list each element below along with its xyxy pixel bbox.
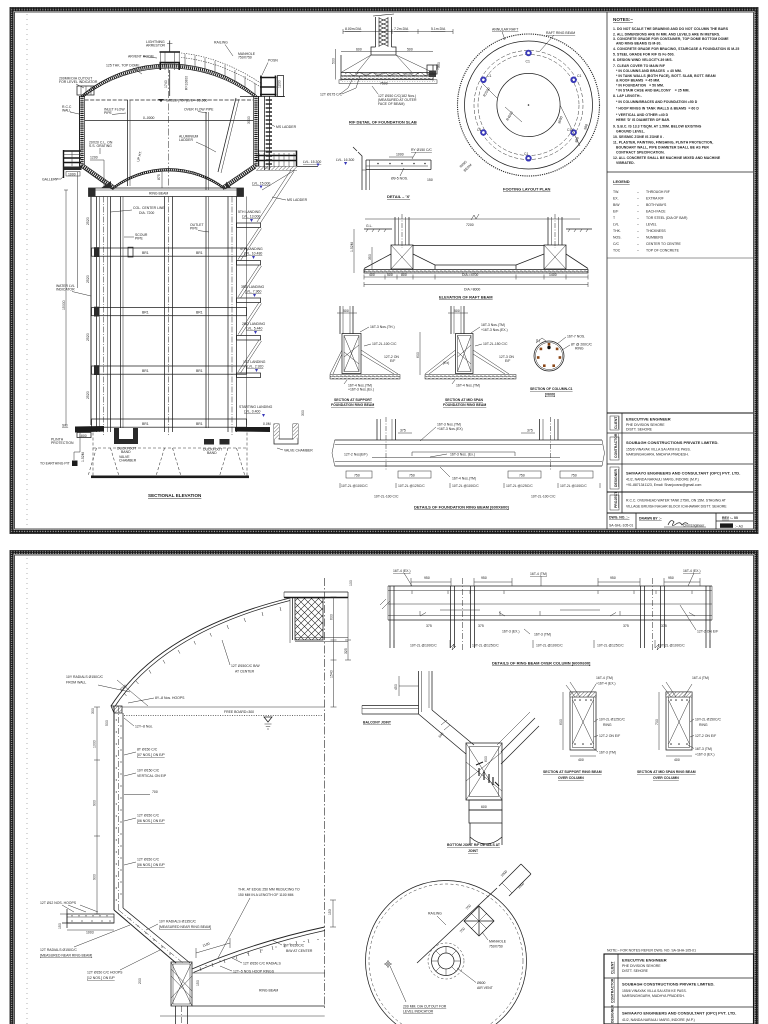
bottom dome inner arc: [113, 171, 224, 189]
svg-text:NOS.: NOS.: [613, 236, 621, 240]
bottom bar hooks: [380, 599, 695, 616]
svg-text:BR1: BR1: [142, 422, 149, 426]
svg-text:POSN: POSN: [268, 59, 278, 63]
svg-text:BAND: BAND: [121, 450, 131, 454]
svg-text:750X750: 750X750: [238, 56, 252, 60]
svg-text:150: 150: [58, 923, 62, 929]
svg-text:LEVEL INDICATOR: LEVEL INDICATOR: [403, 1010, 434, 1014]
svg-text:BR1: BR1: [196, 369, 203, 373]
top of wall line: [122, 706, 325, 708]
sheet2 decorative border band: [12, 553, 756, 1024]
svg-text:Ø9-5 NOS.: Ø9-5 NOS.: [391, 177, 408, 181]
svg-text:RING: RING: [575, 347, 584, 351]
svg-text:950: 950: [481, 576, 487, 580]
railing diagonal: [417, 888, 497, 963]
svg-text:950: 950: [668, 576, 674, 580]
svg-text:700: 700: [655, 719, 659, 725]
svg-text:10Y Ø150 C/C: 10Y Ø150 C/C: [137, 769, 160, 773]
svg-text:T: T: [613, 216, 616, 220]
svg-text:155/6 VINAYAK VILLA SAI ATM KE: 155/6 VINAYAK VILLA SAI ATM KE PASS.: [622, 989, 687, 993]
svg-text:1400: 1400: [549, 273, 557, 277]
svg-text:BALCONY JOINT: BALCONY JOINT: [363, 721, 392, 725]
svg-text:CLIENT: CLIENT: [611, 961, 615, 974]
svg-text:LVL. 2.920: LVL. 2.920: [247, 365, 263, 369]
bottom dims: [364, 276, 588, 278]
column cylinder: [469, 823, 471, 845]
svg-text:15000: 15000: [62, 300, 66, 310]
svg-text:7500: 7500: [380, 82, 388, 86]
legend bottom divider: [607, 257, 754, 259]
svg-text:TOP OF CONCRETE: TOP OF CONCRETE: [646, 249, 680, 253]
svg-text:CLIENT: CLIENT: [614, 416, 618, 429]
svg-text:AND RING BEAMS IS M-30.: AND RING BEAMS IS M-30.: [616, 42, 661, 46]
svg-text:750: 750: [459, 927, 466, 934]
svg-text:BOUNDARY WALL, PIPE DIAMETER S: BOUNDARY WALL, PIPE DIAMETER SHALL BE AS…: [616, 146, 709, 150]
svg-text:400: 400: [369, 273, 375, 277]
svg-text:750: 750: [571, 474, 577, 478]
svg-text:SECTION AT SUPPORT RING BEAM: SECTION AT SUPPORT RING BEAM: [543, 770, 602, 774]
svg-text:125 THK. TOP DOME: 125 THK. TOP DOME: [106, 64, 140, 68]
svg-text:12T RADIALS Ø150C/C: 12T RADIALS Ø150C/C: [40, 948, 77, 952]
svg-text:SECTION AT MID SPAN RING BEAM: SECTION AT MID SPAN RING BEAM: [637, 770, 696, 774]
balcony band left: [362, 706, 419, 715]
svg-text:16T-3 (EX.): 16T-3 (EX.): [502, 630, 520, 634]
svg-text:–: –: [637, 203, 639, 207]
sheet2 outer border line: [10, 551, 758, 1024]
svg-text:DESIGNER: DESIGNER: [614, 469, 618, 487]
svg-text:PROJECT: PROJECT: [614, 491, 618, 508]
svg-text:1200: 1200: [90, 156, 98, 160]
svg-text:–: –: [637, 229, 639, 233]
svg-text:CONTRACTOR: CONTRACTOR: [611, 978, 615, 1003]
svg-text:LADDER: LADDER: [179, 138, 193, 142]
svg-text:3. CONCRETE GRADE FOR CONTAINE: 3. CONCRETE GRADE FOR CONTAINER, TOP DOM…: [613, 37, 729, 41]
svg-text:–: –: [637, 197, 639, 201]
svg-text:300: 300: [436, 64, 440, 70]
svg-text:RING: RING: [603, 723, 612, 727]
svg-text:* IN COLUMNS AND BRACES = 40: * IN COLUMNS AND BRACES = 40 MM.: [616, 69, 682, 73]
svg-text:16T-4 Nos.(TM): 16T-4 Nos.(TM): [452, 477, 476, 481]
svg-text:12T Ø150 C/C: 12T Ø150 C/C: [137, 814, 160, 818]
svg-text:8Y–8 Nos. HOOPS: 8Y–8 Nos. HOOPS: [155, 696, 185, 700]
svg-text:10. SEISMIC ZONE IS ZONE II .: 10. SEISMIC ZONE IS ZONE II .: [613, 135, 664, 139]
svg-text:10T-2L @100C/C: 10T-2L @100C/C: [658, 644, 685, 648]
ms ladder rungs below platform: [266, 100, 272, 168]
column base: [371, 47, 396, 55]
svg-text:16T-3 (TM): 16T-3 (TM): [599, 751, 616, 755]
hooks of extra bars: [412, 591, 692, 616]
svg-text:10T-2L @100C/C: 10T-2L @100C/C: [410, 644, 437, 648]
svg-text:1000: 1000: [396, 153, 404, 157]
svg-text:750: 750: [354, 474, 360, 478]
svg-text:10T-2L @125C/C: 10T-2L @125C/C: [398, 484, 425, 488]
dims 600/500: [341, 51, 433, 53]
svg-text:1000: 1000: [68, 172, 76, 176]
lightning arrestor: [169, 41, 171, 53]
svg-text:S.L.: S.L.: [62, 424, 68, 428]
storey dim line: [90, 196, 92, 425]
sheet2 fold dotted line: [26, 558, 28, 1024]
wall kink slant band: [114, 910, 176, 963]
svg-text:NOTE:– FOR NOTES REFER DWG. NO: NOTE:– FOR NOTES REFER DWG. NO. SA-SHA-1…: [607, 949, 696, 953]
svg-text:RAILING: RAILING: [428, 912, 442, 916]
svg-text:EX.: EX.: [613, 197, 619, 201]
svg-text:[12 NOS.] ON E/P: [12 NOS.] ON E/P: [87, 976, 115, 980]
corner wall: [358, 152, 362, 190]
title block sheet2: [604, 954, 754, 1024]
svg-text:NARSINGHGARH, MADHYA PRADESH.: NARSINGHGARH, MADHYA PRADESH.: [626, 453, 689, 457]
svg-text:950: 950: [610, 576, 616, 580]
svg-text:* IN COLUMN/BRACES AND FOUNDAT: * IN COLUMN/BRACES AND FOUNDATION =50 D: [616, 100, 698, 104]
svg-text:12Y–8 Nos.: 12Y–8 Nos.: [135, 725, 153, 729]
svg-text:TO EARTHING PIT: TO EARTHING PIT: [40, 462, 71, 466]
outlet pipe: [205, 197, 207, 429]
ring beam elevation lines right of box: [192, 972, 325, 974]
diagonal band down to joint: [419, 710, 475, 754]
svg-text:FOR LEVEL INDICATOR: FOR LEVEL INDICATOR: [59, 80, 98, 84]
bottom dome hatch band: [112, 170, 225, 189]
bottom labels: [426, 624, 718, 637]
svg-text:10T-2L @100C/C: 10T-2L @100C/C: [452, 484, 479, 488]
svg-text:* HOOP RINGS IN TANK WALLS & B: * HOOP RINGS IN TANK WALLS & BEAMS = 60 …: [616, 106, 699, 110]
svg-text:2. ALL DIMENSIONS ARE IN MM. A: 2. ALL DIMENSIONS ARE IN MM. AND LEVELS …: [613, 32, 720, 36]
svg-text:GALLERY: GALLERY: [42, 178, 59, 182]
svg-text:155/6 VINAYAK VILLA SAI ATM KE: 155/6 VINAYAK VILLA SAI ATM KE PASS.: [626, 448, 691, 452]
wall top haunch: [111, 706, 122, 713]
left small dims: [353, 229, 355, 273]
svg-text:THK. AT EDGE 250 MM REDUCING T: THK. AT EDGE 250 MM REDUCING TO: [238, 888, 300, 892]
svg-text:400: 400: [578, 758, 584, 762]
top dome inner arc: [85, 68, 253, 96]
svg-text:BOTH WAYS: BOTH WAYS: [646, 203, 667, 207]
svg-text:JOINT: JOINT: [468, 849, 479, 853]
svg-text:R2500: R2500: [482, 87, 491, 98]
inner rebar lines: [412, 452, 515, 456]
svg-text:* VERTICAL AND OTHER =40 D: * VERTICAL AND OTHER =40 D: [616, 113, 669, 117]
svg-text:1003: 1003: [86, 931, 94, 935]
svg-text:10T-2L-100 C/C: 10T-2L-100 C/C: [372, 342, 397, 346]
svg-text:PHE DIVISION SEHORE: PHE DIVISION SEHORE: [626, 423, 665, 427]
right dim stack: [333, 597, 335, 707]
svg-text:500: 500: [407, 48, 413, 52]
svg-text:200 MM. DIA CUTOUT FOR: 200 MM. DIA CUTOUT FOR: [403, 1005, 447, 1009]
svg-text:(Ex): (Ex): [443, 361, 449, 365]
svg-text:16T-7 NOS.: 16T-7 NOS.: [567, 335, 585, 339]
svg-text:EXECUTIVE ENGINEER: EXECUTIVE ENGINEER: [622, 958, 667, 963]
svg-text:10T-2L @100C/C: 10T-2L @100C/C: [560, 484, 587, 488]
svg-text:RY Ø150 C/C: RY Ø150 C/C: [411, 148, 432, 152]
landings right: [237, 223, 261, 378]
svg-text:TOR STEEL (DIA OF BAR): TOR STEEL (DIA OF BAR): [646, 216, 687, 220]
svg-text:16T-4 (EX.): 16T-4 (EX.): [683, 569, 701, 573]
svg-text:RING BEAM: RING BEAM: [259, 989, 278, 993]
svg-text:41/2, NANDA NARAULI MARG, INDO: 41/2, NANDA NARAULI MARG, INDORE (M.P.): [626, 478, 699, 482]
svg-text:* IN STAIR CASE AND BALCONY: * IN STAIR CASE AND BALCONY = 25 MM.: [616, 89, 690, 93]
svg-text:BR1: BR1: [196, 310, 203, 314]
tank mid line: [85, 120, 254, 122]
column mid: [165, 197, 173, 433]
svg-text:3000: 3000: [247, 116, 251, 124]
svg-text:ARVENT ROOM: ARVENT ROOM: [128, 55, 154, 59]
svg-text:CHAMBER: CHAMBER: [119, 459, 137, 463]
notes list: [613, 27, 739, 165]
pedestals: [391, 245, 413, 269]
svg-text:500: 500: [343, 309, 349, 313]
svg-text:41/2, NANDA NARAULI MARG, INDO: 41/2, NANDA NARAULI MARG, INDORE (M.P.): [622, 1018, 695, 1022]
svg-text:C1: C1: [487, 74, 491, 78]
svg-text:LEGEND: LEGEND: [613, 179, 630, 184]
svg-text:2520: 2520: [86, 275, 90, 283]
svg-text:[06 NOS.] ON E/P: [06 NOS.] ON E/P: [137, 819, 165, 823]
svg-text:SECTION AT MID SPAN: SECTION AT MID SPAN: [445, 398, 483, 402]
svg-text:RAFT RING BEAM: RAFT RING BEAM: [546, 31, 575, 35]
beam band: [388, 586, 712, 620]
top column lines: [419, 671, 433, 714]
column right: [228, 197, 237, 433]
roof arc band: [111, 598, 290, 706]
svg-text:375: 375: [661, 624, 667, 628]
svg-text:& ROOF BEAMS = 45 MM.: & ROOF BEAMS = 45 MM.: [616, 79, 660, 83]
stirrup zone row: [410, 644, 685, 648]
svg-text:900: 900: [93, 800, 97, 806]
svg-text:DETAILS OF RING BEAM OVER COLU: DETAILS OF RING BEAM OVER COLUMN [600X60…: [492, 661, 591, 666]
svg-text:ANNULAR RAFT: ANNULAR RAFT: [492, 28, 519, 32]
stair tower top right: [260, 76, 277, 97]
svg-text:7.2m.DIA: 7.2m.DIA: [394, 27, 409, 31]
wall band: [113, 706, 115, 910]
svg-text:PROTECTION: PROTECTION: [51, 441, 74, 445]
svg-text:12T Ø12 NOS. HOOPS: 12T Ø12 NOS. HOOPS: [40, 901, 77, 905]
svg-text:11. PLASTER, PAINTING, FINISHI: 11. PLASTER, PAINTING, FINISHING, PLINTH…: [613, 141, 713, 145]
svg-text:1200: 1200: [278, 80, 282, 88]
svg-text:0–0000: 0–0000: [143, 116, 155, 120]
project cell: [610, 495, 619, 510]
svg-text:[06 NOS.] ON E/P: [06 NOS.] ON E/P: [137, 863, 165, 867]
svg-text:16T-4 (EX.): 16T-4 (EX.): [393, 569, 411, 573]
svg-text:3600: 3600: [557, 116, 563, 125]
svg-text:DRAWN BY :–: DRAWN BY :–: [639, 517, 662, 521]
svg-text:R.C.C. OVERHEAD WATER TANK 275: R.C.C. OVERHEAD WATER TANK 275KL ON 15M.…: [626, 499, 727, 503]
svg-text:5.1m.DIA: 5.1m.DIA: [431, 27, 446, 31]
svg-text:THROUGH R/F: THROUGH R/F: [646, 190, 670, 194]
sheet1 fold dotted line: [26, 14, 28, 527]
legend rows: [613, 190, 687, 253]
svg-text:–: –: [637, 249, 639, 253]
svg-text:G.L.: G.L.: [366, 224, 373, 228]
svg-text:750: 750: [519, 474, 525, 478]
water symbol: [264, 717, 272, 722]
svg-text:750: 750: [465, 904, 472, 911]
svg-text:12T Ø150C/C B/W: 12T Ø150C/C B/W: [231, 664, 260, 668]
svg-text:10T-2L-100 C/C: 10T-2L-100 C/C: [531, 495, 556, 499]
svg-text:4. CONCRETE GRADE FOR BRACING,: 4. CONCRETE GRADE FOR BRACING, STAIRCASE…: [613, 47, 739, 51]
svg-text:MS LADDER: MS LADDER: [287, 198, 308, 202]
bottom tie beam: [92, 419, 247, 427]
signature: [668, 521, 688, 526]
title block sheet1: [607, 413, 754, 529]
svg-text:1740: 1740: [164, 80, 168, 88]
svg-text:SECTION AT SUPPORT: SECTION AT SUPPORT: [334, 398, 373, 402]
notes column divider: [606, 12, 608, 529]
valve chamber right: [274, 424, 298, 444]
svg-text:[MEASURED NEAR RING BEAM]: [MEASURED NEAR RING BEAM]: [159, 925, 211, 929]
svg-text:DIA.=4700: DIA.=4700: [462, 273, 478, 277]
dim 450: [399, 685, 419, 687]
svg-text:BR1: BR1: [142, 369, 149, 373]
gallery slab: [64, 167, 82, 171]
column stub: [340, 306, 353, 334]
svg-text:BR1: BR1: [142, 251, 149, 255]
svg-text:10T-2L @100C/C: 10T-2L @100C/C: [341, 484, 368, 488]
svg-text:300: 300: [91, 708, 95, 714]
svg-text:12T-2 ON E/F: 12T-2 ON E/F: [697, 630, 718, 634]
svg-text:BR1: BR1: [142, 310, 149, 314]
svg-text:+16T-4 (EX.): +16T-4 (EX.): [596, 682, 616, 686]
arvent room on dome apex: [160, 52, 181, 70]
diagonal break mark: [441, 720, 450, 730]
svg-text:5TH LANDING: 5TH LANDING: [238, 210, 261, 214]
svg-text:12T Ø150 C/C: 12T Ø150 C/C: [137, 858, 160, 862]
sheet1 decorative border band: [12, 10, 756, 532]
svg-text:MANHOLE: MANHOLE: [489, 940, 507, 944]
svg-text:5. STEEL GRADE FOR R/F IS Fe-5: 5. STEEL GRADE FOR R/F IS Fe-500.: [613, 53, 675, 57]
left vertical dim: [419, 332, 421, 375]
svg-text:7. CLEAR COVER TO MAIN R/F: 7. CLEAR COVER TO MAIN R/F: [613, 64, 665, 68]
svg-text:16T-3 Nos. (Ex.): 16T-3 Nos. (Ex.): [450, 453, 475, 457]
svg-text:DIA.=8000: DIA.=8000: [464, 288, 480, 292]
stirrup zone boxes: [346, 471, 593, 478]
svg-text:C1: C1: [567, 128, 571, 132]
svg-text:4TH LANDING: 4TH LANDING: [240, 247, 263, 251]
outer dashed circle: [458, 34, 600, 176]
left column: [395, 217, 409, 245]
svg-text:FREE BOARD=300: FREE BOARD=300: [224, 710, 254, 714]
svg-text:TOC: TOC: [613, 249, 621, 253]
svg-text:PIPE: PIPE: [104, 111, 113, 115]
svg-text:+16T-3 (EX.): +16T-3 (EX.): [695, 753, 715, 757]
svg-text:B/W AT CENTER: B/W AT CENTER: [286, 949, 313, 953]
svg-text:BOTTOM JOINT R/F DETAILS AT: BOTTOM JOINT R/F DETAILS AT: [447, 843, 501, 847]
beam band: [335, 440, 602, 466]
client cell: [610, 416, 619, 430]
svg-text:LVL. 10.480: LVL. 10.480: [244, 252, 262, 256]
raft dashed outline: [88, 433, 247, 477]
svg-text:SHIVAAYO ENGINEERS AND CONSULT: SHIVAAYO ENGINEERS AND CONSULTANT (OPC) …: [622, 1011, 736, 1016]
starting landing right wedge: [235, 427, 270, 432]
wings: [330, 350, 342, 374]
overall height dim 15000: [65, 190, 67, 425]
svg-text:C1: C1: [526, 60, 530, 64]
svg-text:–: –: [637, 236, 639, 240]
tank center line: [168, 66, 170, 188]
svg-text:BAND: BAND: [207, 451, 217, 455]
contractor cell: [610, 437, 619, 460]
svg-text:1.52M: 1.52M: [350, 242, 354, 252]
right edge box: [427, 65, 437, 74]
svg-text:800: 800: [401, 273, 407, 277]
svg-text:ELEVATION OF RAFT BEAM: ELEVATION OF RAFT BEAM: [439, 295, 493, 300]
svg-text:375: 375: [623, 624, 629, 628]
svg-text:12T-2 ON E/F: 12T-2 ON E/F: [695, 734, 716, 738]
svg-text:8. LAP LENGTH:-: 8. LAP LENGTH:-: [613, 94, 642, 98]
svg-text:2520: 2520: [86, 391, 90, 399]
svg-text:R=10800: R=10800: [185, 76, 189, 90]
sheet1 inner border line: [15, 12, 754, 529]
svg-text:0.0M: 0.0M: [263, 422, 271, 426]
svg-text:1. DO NOT SCALE THE DRAWING AN: 1. DO NOT SCALE THE DRAWING AND DO NOT C…: [613, 27, 729, 31]
water level dashed line: [85, 99, 254, 101]
svg-text:SECTIONAL ELEVATION: SECTIONAL ELEVATION: [148, 493, 202, 498]
svg-text:9. S.B.C. IS 13.3 T/SQM. AT 1.: 9. S.B.C. IS 13.3 T/SQM. AT 1.50M. BELOW…: [613, 124, 702, 128]
svg-text:153: 153: [328, 909, 332, 915]
railing posts: [185, 54, 255, 94]
svg-text:SOUBAGH CONSTRUCTIONS PRIVATE: SOUBAGH CONSTRUCTIONS PRIVATE LIMITED.: [626, 440, 719, 445]
right balcony: [256, 151, 318, 170]
svg-text:LEVEL: LEVEL: [646, 223, 657, 227]
svg-text:CONTRACTOR: CONTRACTOR: [614, 433, 618, 458]
svg-text:600: 600: [330, 614, 334, 620]
svg-text:1000: 1000: [93, 740, 97, 748]
svg-text:–: –: [637, 223, 639, 227]
svg-text:+16T-3 Nos.(EX.): +16T-3 Nos.(EX.): [481, 328, 508, 332]
right tank wall: [226, 96, 259, 189]
svg-text:EACH FACE: EACH FACE: [646, 210, 666, 214]
svg-text:E/F: E/F: [390, 359, 395, 363]
cutout marker: [384, 960, 392, 968]
svg-text:16T-3 Nos.(TM): 16T-3 Nos.(TM): [437, 423, 461, 427]
svg-text:C1: C1: [477, 128, 481, 132]
svg-text:12T Ø150 C/C RADIALS: 12T Ø150 C/C RADIALS: [243, 962, 281, 966]
svg-text:DISTT. SEHORE: DISTT. SEHORE: [622, 969, 649, 973]
svg-text:DIA. 7200: DIA. 7200: [139, 211, 154, 215]
svg-text:E/F: E/F: [613, 210, 618, 214]
svg-text:600: 600: [356, 48, 362, 52]
svg-text:INDICATOR: INDICATOR: [56, 288, 75, 292]
svg-text:OVER COLUMN: OVER COLUMN: [653, 776, 679, 780]
svg-text:16T-4 (TM): 16T-4 (TM): [596, 676, 613, 680]
svg-text:600: 600: [484, 756, 488, 762]
ms ladder right: [264, 96, 266, 170]
balcony slab left: [67, 914, 114, 923]
top dim: [365, 218, 580, 220]
svg-text:CONTRACT SPECIFICATION.: CONTRACT SPECIFICATION.: [616, 151, 665, 155]
bottom dome arc band: [192, 927, 325, 969]
outer circle: [366, 881, 527, 1024]
slab: [340, 55, 342, 81]
svg-text:500: 500: [454, 309, 460, 313]
svg-text:PIPE: PIPE: [135, 237, 144, 241]
svg-text:100: 100: [349, 580, 353, 586]
bottom strip cells: [635, 513, 637, 529]
svg-text:FROM WALL: FROM WALL: [66, 681, 86, 685]
svg-text:8.00m.DIA: 8.00m.DIA: [345, 27, 362, 31]
legend divider: [607, 171, 754, 173]
svg-text:10Y-2L Ø150C/C: 10Y-2L Ø150C/C: [695, 718, 721, 722]
sheet2 inner border line: [15, 555, 754, 1024]
svg-text:THICKNESS: THICKNESS: [646, 229, 666, 233]
svg-text:R/F DETAIL OF FOUNDATION SLAB: R/F DETAIL OF FOUNDATION SLAB: [349, 120, 417, 125]
svg-text:10Y RADIALS Ø150C/C: 10Y RADIALS Ø150C/C: [66, 675, 104, 679]
svg-text:C/C: C/C: [613, 242, 619, 246]
svg-text:12T–5 NOS HOOP RINGS: 12T–5 NOS HOOP RINGS: [233, 970, 275, 974]
duckfoot left: [114, 428, 138, 444]
svg-text:DETAILS OF FOUNDATION RING BEA: DETAILS OF FOUNDATION RING BEAM [600X600…: [414, 505, 509, 510]
dia dim line: [343, 31, 453, 33]
svg-text:SHIVAAYO ENGINEERS AND CONSULT: SHIVAAYO ENGINEERS AND CONSULTANT (OPC) …: [626, 471, 740, 476]
svg-text:ARRESTOR: ARRESTOR: [146, 44, 166, 48]
svg-text:STEEL (TOP)LVL=+00.000: STEEL (TOP)LVL=+00.000: [166, 99, 207, 103]
top-right landing: [499, 864, 531, 896]
